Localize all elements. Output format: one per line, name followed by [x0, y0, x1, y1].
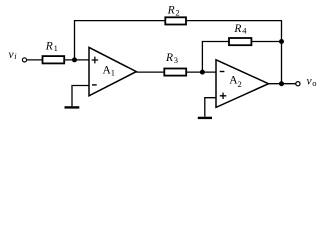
svg-text:3: 3 [174, 55, 178, 65]
op-amp A1 plus sign [92, 57, 99, 64]
wire output: A2 tip to vo terminal [269, 83, 296, 85]
op-amp A2 minus sign [220, 71, 225, 73]
wire R4 branch: node B up, across through R4 to right vertical [202, 42, 281, 73]
node D (output junction) [279, 81, 284, 86]
svg-text:4: 4 [242, 26, 247, 36]
ground (A2) [198, 117, 212, 119]
resistor R4 [229, 38, 251, 45]
node B (R3/A2/R4 junction) [200, 70, 205, 75]
resistor R3 [164, 69, 186, 76]
op-amp A1 minus sign [92, 84, 97, 86]
ground (A1) [65, 106, 80, 108]
terminal vi [22, 58, 26, 62]
resistor R2 [165, 17, 186, 24]
svg-text:R: R [45, 40, 53, 52]
wire middle: A1 output through R3 to A2 - input [136, 71, 216, 73]
svg-text:1: 1 [111, 68, 115, 78]
svg-text:R: R [165, 52, 173, 64]
node A (R1/A1/R2 junction) [72, 57, 77, 62]
terminal vo [296, 82, 300, 86]
svg-text:2: 2 [175, 8, 179, 18]
wire input line vi to A1 + input [27, 59, 89, 61]
svg-text:2: 2 [238, 79, 242, 89]
svg-text:R: R [167, 5, 175, 17]
wire A1 - input to ground [72, 86, 89, 107]
node C (R4 right junction) [279, 39, 284, 44]
wire A2 + input to ground [205, 98, 216, 117]
wire feedback R2 branch: node A up, across top, down to output node [75, 21, 282, 84]
resistor R1 [43, 56, 65, 63]
op-amp A1 [89, 47, 136, 95]
op-amp A2 [216, 60, 269, 108]
svg-text:o: o [312, 78, 316, 88]
op-amp A2 plus sign [220, 93, 227, 99]
svg-text:R: R [233, 23, 241, 35]
svg-text:1: 1 [54, 43, 58, 53]
